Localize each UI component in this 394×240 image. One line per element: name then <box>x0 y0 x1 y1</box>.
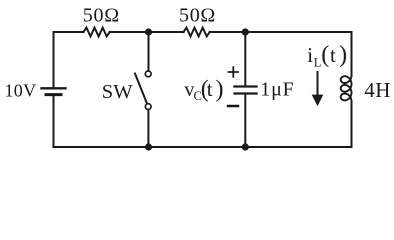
minus sign for vC <box>228 105 238 108</box>
inductor L 4H coil <box>341 75 352 101</box>
svg-text:t: t <box>207 77 213 101</box>
wire top-left segment <box>54 32 84 88</box>
resistor R1 50ohm zigzag <box>84 28 110 37</box>
svg-text:1μF: 1μF <box>260 78 294 100</box>
resistor R2 50ohm zigzag <box>184 28 210 37</box>
switch SW lever <box>135 74 147 104</box>
plus sign for vC <box>229 67 239 77</box>
wire R2 to top-right corner <box>210 31 352 33</box>
wire right side below inductor <box>351 101 353 147</box>
svg-text:4H: 4H <box>364 78 390 102</box>
wire left below battery <box>53 96 55 147</box>
wire right side above inductor <box>351 32 353 76</box>
svg-text:t: t <box>330 43 336 67</box>
wire bottom <box>54 146 352 148</box>
junction dot top at switch node <box>145 28 152 35</box>
svg-text:50Ω: 50Ω <box>83 5 120 27</box>
switch SW top stub <box>148 32 150 71</box>
capacitor C bottom stub <box>244 95 246 147</box>
junction dot bottom at capacitor node <box>242 143 249 150</box>
svg-text:i: i <box>307 43 313 67</box>
switch SW bottom stub <box>147 110 149 147</box>
junction dot bottom at switch node <box>145 143 152 150</box>
iL arrow shaft <box>317 72 319 97</box>
svg-text:10V: 10V <box>5 80 37 100</box>
capacitor C top plate <box>235 85 257 87</box>
battery V1 long plate <box>42 87 66 89</box>
svg-text:): ) <box>339 42 347 68</box>
wire between R1 and R2 <box>110 31 184 33</box>
junction dot top at capacitor node <box>242 28 249 35</box>
switch SW bottom contact circle <box>145 104 151 110</box>
svg-text:(: ( <box>321 42 329 68</box>
svg-text:L: L <box>314 55 322 69</box>
svg-text:50Ω: 50Ω <box>179 5 216 27</box>
svg-text:): ) <box>216 76 224 102</box>
capacitor C top stub <box>244 32 246 85</box>
svg-text:SW: SW <box>102 81 133 103</box>
switch SW top contact circle <box>145 71 151 77</box>
iL arrow head <box>312 95 324 107</box>
battery V1 short plate <box>46 93 61 96</box>
capacitor C bottom plate <box>235 92 257 94</box>
